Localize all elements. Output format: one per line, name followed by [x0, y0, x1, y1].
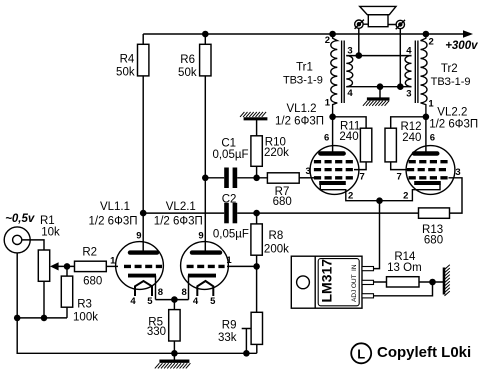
svg-text:R3: R3 [77, 299, 92, 311]
svg-text:Copyleft L0ki: Copyleft L0ki [377, 344, 471, 361]
svg-text:IN: IN [351, 264, 358, 271]
svg-text:5: 5 [147, 296, 153, 307]
svg-text:+300v: +300v [445, 40, 478, 52]
svg-text:0,05µF: 0,05µF [212, 149, 248, 161]
svg-text:R1: R1 [40, 215, 55, 227]
svg-text:L: L [357, 346, 365, 361]
svg-text:2: 2 [403, 190, 408, 201]
svg-text:680: 680 [273, 196, 292, 208]
svg-text:33k: 33k [218, 332, 237, 344]
svg-text:ADJ: ADJ [351, 290, 358, 302]
svg-text:220k: 220k [264, 147, 289, 159]
svg-text:R2: R2 [82, 246, 97, 258]
svg-text:R4: R4 [120, 54, 135, 66]
svg-text:3: 3 [455, 167, 460, 178]
svg-text:C2: C2 [222, 194, 237, 206]
svg-text:10k: 10k [41, 226, 60, 238]
svg-text:4: 4 [347, 88, 353, 99]
svg-text:50k: 50k [178, 67, 197, 79]
svg-text:1/2 6Ф3П: 1/2 6Ф3П [154, 216, 203, 228]
svg-text:~0,5v: ~0,5v [5, 213, 35, 225]
svg-text:R9: R9 [222, 319, 237, 331]
svg-text:3: 3 [347, 45, 352, 56]
svg-text:100k: 100k [73, 311, 98, 323]
svg-text:50k: 50k [116, 67, 135, 79]
svg-text:1: 1 [325, 97, 331, 108]
svg-text:4: 4 [406, 45, 412, 56]
svg-text:R6: R6 [180, 54, 195, 66]
svg-text:OUT: OUT [351, 274, 358, 288]
svg-text:680: 680 [424, 235, 443, 247]
svg-text:0,05µF: 0,05µF [213, 228, 249, 240]
svg-text:VL2.1: VL2.1 [166, 201, 196, 213]
svg-text:C1: C1 [221, 138, 236, 150]
svg-text:Tr2: Tr2 [441, 63, 458, 75]
svg-text:2: 2 [429, 36, 434, 47]
svg-text:4: 4 [130, 296, 136, 307]
svg-text:1/2 6Ф3П: 1/2 6Ф3П [275, 116, 324, 128]
svg-text:3: 3 [406, 89, 411, 100]
svg-text:R8: R8 [269, 230, 284, 242]
svg-text:13 Om: 13 Om [387, 262, 422, 274]
svg-text:VL1.1: VL1.1 [100, 201, 130, 213]
svg-text:VL2.2: VL2.2 [437, 107, 467, 119]
svg-text:240: 240 [339, 131, 358, 143]
svg-text:5: 5 [210, 296, 216, 307]
svg-text:1: 1 [428, 99, 434, 110]
svg-text:240: 240 [402, 132, 421, 144]
svg-text:200k: 200k [264, 244, 289, 256]
svg-text:ТВЗ-1-9: ТВЗ-1-9 [283, 74, 323, 86]
svg-text:2: 2 [348, 190, 353, 201]
svg-text:7: 7 [359, 172, 364, 183]
svg-text:Tr1: Tr1 [296, 62, 313, 74]
svg-text:1/2 6Ф3П: 1/2 6Ф3П [429, 118, 478, 130]
svg-text:8: 8 [182, 287, 187, 298]
svg-text:1/2 6Ф3П: 1/2 6Ф3П [89, 216, 138, 228]
svg-text:VL1.2: VL1.2 [287, 103, 317, 115]
svg-text:LM317: LM317 [319, 259, 335, 303]
svg-text:6: 6 [430, 132, 435, 143]
svg-text:3: 3 [306, 166, 311, 177]
svg-text:8: 8 [158, 287, 163, 298]
svg-text:ТВЗ-1-9: ТВЗ-1-9 [431, 76, 471, 88]
svg-text:1: 1 [110, 255, 116, 266]
svg-text:4: 4 [193, 296, 199, 307]
svg-text:1: 1 [226, 255, 232, 266]
svg-text:330: 330 [147, 326, 166, 338]
svg-text:7: 7 [397, 172, 402, 183]
svg-text:680: 680 [83, 275, 102, 287]
svg-text:9: 9 [198, 230, 203, 241]
svg-text:6: 6 [324, 132, 329, 143]
svg-text:9: 9 [136, 230, 141, 241]
svg-text:2: 2 [325, 35, 330, 46]
